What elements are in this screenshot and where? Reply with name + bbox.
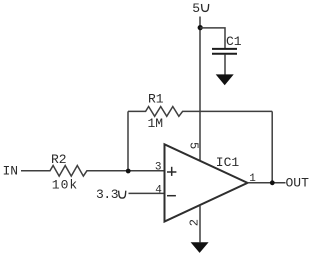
junction dot 5V/C1 branch bbox=[198, 25, 203, 30]
junction dot feedback/input bbox=[126, 169, 131, 174]
op-amp minus input marking bbox=[167, 195, 176, 197]
wire 5V vertical to op-amp pin 5 bbox=[199, 17, 201, 161]
svg-text:3: 3 bbox=[155, 162, 162, 174]
wire output pin 1 to OUT bbox=[248, 182, 286, 184]
wire 3.3V to pin 4 bbox=[129, 192, 165, 194]
svg-text:OUT: OUT bbox=[286, 175, 310, 190]
svg-text:5: 5 bbox=[192, 1, 200, 16]
svg-text:5: 5 bbox=[187, 142, 201, 149]
ground (below IC1) bbox=[191, 242, 209, 253]
svg-text:4: 4 bbox=[155, 185, 162, 197]
svg-text:10k: 10k bbox=[52, 178, 78, 193]
net 3.3V label bbox=[96, 187, 126, 202]
svg-text:R2: R2 bbox=[51, 152, 67, 167]
op-amp plus input marking bbox=[167, 167, 176, 176]
ground (below C1) bbox=[216, 74, 234, 85]
resistor R2 bbox=[21, 166, 165, 177]
svg-text:IC1: IC1 bbox=[216, 155, 240, 170]
op-amp IC1 triangle bbox=[165, 144, 248, 221]
wire C1 bottom to ground bbox=[224, 55, 226, 75]
svg-text:IN: IN bbox=[3, 163, 19, 178]
wire junction to C1 top bbox=[200, 28, 225, 48]
svg-text:R1: R1 bbox=[148, 92, 164, 107]
wire R1 left lead down to input node bbox=[127, 111, 129, 170]
svg-text:1M: 1M bbox=[148, 116, 164, 131]
capacitor C1 bbox=[212, 49, 237, 54]
svg-text:C1: C1 bbox=[226, 34, 242, 49]
net 5V label bbox=[192, 1, 208, 16]
junction dot output/feedback bbox=[270, 180, 275, 185]
wire feedback right side down to output bbox=[271, 111, 273, 182]
resistor R1 bbox=[128, 107, 272, 117]
svg-text:3.3: 3.3 bbox=[96, 187, 118, 202]
wire op-amp pin 2 to ground bbox=[199, 206, 201, 242]
